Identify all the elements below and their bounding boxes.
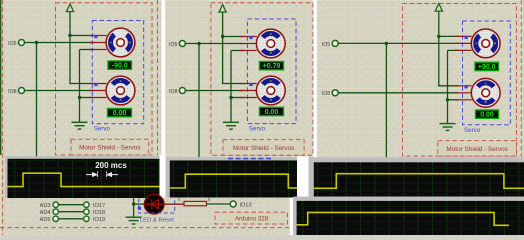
wire IO8 to servo2 signal (panel 1) bbox=[25, 90, 94, 92]
svg-text:IO8: IO8 bbox=[169, 89, 177, 95]
pin marker servo2 (panel 1) bbox=[94, 83, 97, 86]
servo motor M1 (panel 3) bbox=[455, 29, 500, 58]
wire servo2 gnd pin (panel 1) bbox=[80, 97, 94, 99]
terminal IO5 (panel 2) bbox=[169, 41, 185, 48]
svg-text:AD4: AD4 bbox=[40, 210, 51, 216]
oscilloscope D window frame bbox=[293, 197, 524, 235]
terminal IO5 (panel 1) bbox=[8, 40, 24, 47]
wire power rail (panel 2) bbox=[222, 15, 224, 84]
junction gnd/servo2 (panel 2) bbox=[229, 96, 232, 99]
wire IO8 to servo2 signal (panel 3) bbox=[338, 92, 459, 94]
junction power/servo1 (panel 1) bbox=[68, 34, 71, 37]
junction power/servo1 (panel 3) bbox=[437, 35, 440, 38]
wire AD3 to IO17 bbox=[58, 204, 83, 206]
terminal IO13 bbox=[230, 201, 236, 207]
svg-text:Arduino 328: Arduino 328 bbox=[235, 216, 269, 223]
servo group selection box (panel 1) bbox=[92, 21, 143, 124]
subcircuit boundary (panel 2) bbox=[211, 3, 313, 156]
servo group selection box (panel 2) bbox=[247, 19, 296, 124]
terminal IO18 bbox=[84, 209, 89, 214]
wire power rail (panel 3) bbox=[438, 14, 440, 86]
junction power/servo1 (panel 2) bbox=[221, 35, 224, 38]
svg-text:+0.79: +0.79 bbox=[263, 63, 281, 70]
wire ground rail (panel 3) bbox=[447, 50, 449, 123]
wire power rail (panel 1) bbox=[69, 14, 71, 84]
svg-text:IO18: IO18 bbox=[93, 210, 105, 216]
pin marker servo1 (panel 2) bbox=[249, 36, 252, 39]
pin marker servo1 (panel 1) bbox=[94, 35, 97, 38]
power symbol VCC arrow (panel 1) bbox=[66, 4, 73, 15]
svg-text:200 mcs: 200 mcs bbox=[95, 161, 127, 170]
boundary dash right edge bbox=[520, 0, 522, 157]
pin marker servo2 (panel 3) bbox=[465, 85, 468, 88]
wire IO5 down to scope (panel 3) bbox=[385, 43, 387, 160]
wire resistor to IO13 bbox=[207, 203, 231, 205]
oscilloscope D plot area bbox=[297, 201, 524, 235]
selection dashes above oscilloscope B bbox=[228, 158, 272, 160]
label box Motor Shield - Servos (panel 2) bbox=[223, 140, 304, 156]
resistor R1 bbox=[184, 201, 207, 205]
wire AD4 to IO18 bbox=[58, 211, 83, 213]
wire power to servo1 top pin (panel 2) bbox=[223, 36, 244, 38]
wire node to LED anode bbox=[134, 203, 145, 205]
wire ground rail (panel 2) bbox=[230, 51, 232, 123]
svg-text:AD3: AD3 bbox=[40, 203, 51, 209]
svg-text:0.00: 0.00 bbox=[113, 110, 127, 117]
pin marker LED bbox=[138, 207, 141, 210]
svg-text:Servo: Servo bbox=[94, 126, 111, 133]
angle display D1 value +90.0 (panel 3) bbox=[475, 62, 499, 71]
servo motor M1 (panel 2) bbox=[240, 29, 285, 58]
power symbol VCC arrow (panel 2) bbox=[219, 5, 226, 16]
wire IO5 to servo1 signal (panel 3) bbox=[338, 42, 459, 44]
boundary dash left edge bbox=[2, 0, 4, 235]
subcircuit boundary (panel 3) bbox=[403, 4, 517, 157]
wire IO5 to servo1 signal (panel 1) bbox=[25, 42, 94, 44]
wire AD5 to IO19 bbox=[58, 218, 83, 220]
LED D1 bbox=[144, 194, 164, 214]
oscilloscope B plot area bbox=[170, 160, 297, 197]
servo motor M2 (panel 1) bbox=[90, 76, 135, 105]
wire servo2 gnd pin (panel 2) bbox=[231, 97, 244, 99]
oscilloscope A window frame bbox=[5, 156, 160, 198]
oscilloscope B window frame bbox=[166, 157, 297, 197]
wire IO5 down to scope (panel 2) bbox=[198, 44, 200, 159]
oscilloscope A dimension arrows bbox=[86, 172, 118, 179]
junction IO5 tap (panel 2) bbox=[197, 42, 200, 45]
junction gnd/servo2 (panel 1) bbox=[78, 96, 81, 99]
ground GND (panel 3) bbox=[440, 124, 456, 131]
servo motor M2 (panel 2) bbox=[240, 76, 285, 105]
terminal IO8 (panel 1) bbox=[8, 88, 24, 95]
svg-text:Servo: Servo bbox=[249, 126, 266, 133]
wire servo2 gnd pin (panel 3) bbox=[448, 99, 459, 101]
svg-text:IO5: IO5 bbox=[169, 42, 177, 48]
oscilloscope A plot area bbox=[8, 159, 160, 198]
terminal IO5 (panel 3) bbox=[322, 40, 338, 47]
boundary dash panel1 right bbox=[157, 0, 159, 156]
oscilloscope C window frame bbox=[309, 157, 524, 196]
label box Motor Shield - Servos (panel 1) bbox=[71, 139, 149, 155]
wire power to servo1 top pin (panel 3) bbox=[439, 35, 459, 37]
wire from scope down to LED node bbox=[133, 197, 135, 217]
wire servo1 gnd pin (panel 2) bbox=[231, 50, 244, 52]
svg-text:Motor Shield - Servos: Motor Shield - Servos bbox=[233, 145, 294, 152]
pin marker servo1 (panel 3) bbox=[465, 36, 468, 39]
terminal IO8 (panel 2) bbox=[169, 88, 185, 95]
window gap panel2/panel3 bbox=[313, 0, 317, 157]
subcircuit boundary (panel 1) bbox=[56, 3, 153, 155]
angle display D2 value 0.00 (panel 3) bbox=[476, 110, 499, 119]
ground GND (panel 1) bbox=[72, 122, 88, 129]
wire IO5 down to scope (panel 1) bbox=[36, 43, 38, 158]
angle display D1 value -90.0 (panel 1) bbox=[108, 61, 132, 70]
junction IO5 tap (panel 3) bbox=[385, 42, 388, 45]
ground GND (LED) bbox=[126, 217, 142, 224]
svg-text:IO19: IO19 bbox=[93, 217, 105, 223]
power symbol VCC arrow (panel 3) bbox=[435, 4, 442, 15]
svg-text:-90.0: -90.0 bbox=[112, 63, 128, 70]
oscilloscope D trace bbox=[297, 212, 509, 225]
label box Arduino 328 bbox=[215, 212, 287, 224]
wire fragment at left window edge bbox=[0, 0, 2, 155]
svg-text:IO5: IO5 bbox=[8, 41, 16, 47]
window gap panel1/panel2 bbox=[161, 0, 165, 155]
svg-text:IO8: IO8 bbox=[8, 89, 16, 95]
wire power to servo2 top pin (panel 2) bbox=[222, 83, 244, 85]
svg-text:0.00: 0.00 bbox=[480, 112, 494, 119]
window gap left of bottom-right scope bbox=[290, 193, 293, 235]
svg-text:Motor Shield - Servos: Motor Shield - Servos bbox=[446, 146, 507, 153]
servo motor M1 (panel 1) bbox=[90, 28, 135, 57]
terminal IO17 bbox=[84, 202, 89, 207]
selection box around LED bbox=[139, 198, 175, 213]
boundary dash bottom bbox=[0, 227, 290, 229]
svg-text:IO8: IO8 bbox=[322, 91, 330, 97]
wire LED to resistor bbox=[164, 203, 185, 205]
servo group selection box (panel 3) bbox=[463, 21, 511, 125]
junction IO5 tap (panel 1) bbox=[35, 41, 38, 44]
pin marker servo2 (panel 2) bbox=[249, 83, 252, 86]
oscilloscope C trace bbox=[314, 174, 524, 189]
ground GND (panel 2) bbox=[223, 122, 239, 129]
svg-text:AD5: AD5 bbox=[40, 217, 51, 223]
wire IO5 to servo1 signal (panel 2) bbox=[185, 43, 243, 45]
wire ground rail (panel 1) bbox=[79, 50, 81, 123]
svg-text:Servo: Servo bbox=[464, 127, 481, 134]
svg-text:0.00: 0.00 bbox=[265, 109, 279, 116]
terminal IO19 bbox=[84, 216, 89, 221]
wire power to servo2 top pin (panel 1) bbox=[69, 83, 93, 85]
wire power to servo2 top pin (panel 3) bbox=[438, 85, 459, 87]
wire IO8 to servo2 signal (panel 2) bbox=[185, 90, 243, 92]
angle display D2 value 0.00 (panel 1) bbox=[108, 109, 132, 118]
wire servo1 gnd pin (panel 3) bbox=[448, 49, 459, 51]
oscilloscope A trace bbox=[8, 173, 160, 186]
terminal IO8 (panel 3) bbox=[322, 90, 338, 97]
wire servo1 gnd pin (panel 1) bbox=[80, 49, 94, 51]
svg-text:Motor Shield - Servos: Motor Shield - Servos bbox=[79, 145, 140, 152]
junction LED node bbox=[132, 202, 135, 205]
angle display D2 value 0.00 (panel 2) bbox=[260, 107, 284, 116]
svg-text:LED & Reset: LED & Reset bbox=[140, 218, 174, 224]
svg-text:IO17: IO17 bbox=[93, 203, 105, 209]
label box Motor Shield - Servos (panel 3) bbox=[438, 141, 517, 156]
wire power to servo1 top pin (panel 1) bbox=[70, 35, 94, 37]
svg-text:IO5: IO5 bbox=[322, 42, 330, 48]
angle display D1 value +0.79 (panel 2) bbox=[260, 62, 284, 71]
svg-text:IO13: IO13 bbox=[240, 202, 252, 208]
svg-text:+90.0: +90.0 bbox=[478, 64, 496, 71]
oscilloscope C plot area bbox=[314, 162, 524, 196]
servo motor M2 (panel 3) bbox=[455, 78, 500, 107]
junction gnd/servo2 (panel 3) bbox=[446, 98, 449, 101]
oscilloscope B trace bbox=[170, 174, 297, 188]
